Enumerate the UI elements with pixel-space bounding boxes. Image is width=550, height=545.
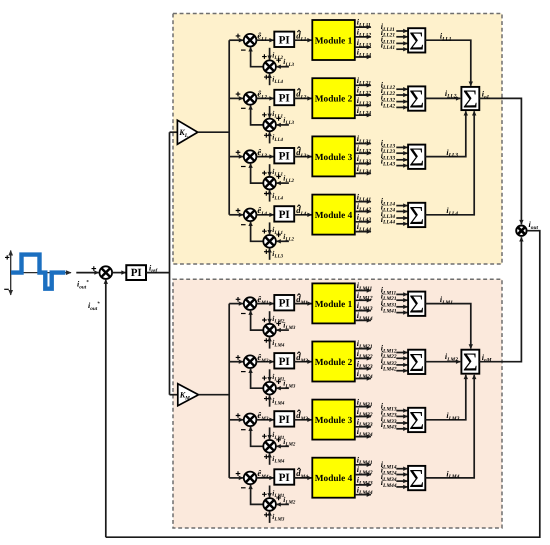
wire i_M3 SUM_M3 to big sigma bottom <box>425 375 466 420</box>
wire stub into S2_L4 bottom <box>269 248 271 259</box>
wire S0 to PI <box>112 272 125 274</box>
wire i_L1 SUM_L1 to big sigma top <box>425 40 471 85</box>
wire S2_L2 to S_L2 (negative feedback) <box>251 105 264 125</box>
label - at S_L3 <box>241 166 246 168</box>
svg-text:Σ: Σ <box>463 348 478 377</box>
label + top stub S2_L4 <box>262 229 267 234</box>
svg-text:PI: PI <box>279 34 290 46</box>
leg group dashed box (top, cream) <box>173 14 502 265</box>
summing junction S_M3 <box>244 414 257 427</box>
wire PI to Module 4 <box>294 214 311 216</box>
summing junction S2_L4 <box>263 235 276 248</box>
svg-text:PI: PI <box>279 356 290 368</box>
summing junction S_M2 <box>244 355 257 368</box>
label - at S_L2 <box>241 107 246 109</box>
wire K_L to top distribution line <box>198 131 230 133</box>
label + bottom stub S2_L4 <box>264 249 269 254</box>
wire branch to junction S_M3 <box>229 419 243 421</box>
PI controller PI_L3 <box>274 148 294 163</box>
wire S2_M1 to S_M1 (negative feedback) <box>251 311 264 331</box>
label + bottom stub S2_M2 <box>264 396 269 401</box>
wire i_ref vertical line <box>169 132 171 395</box>
PI controller PI_M1 <box>274 295 294 310</box>
label + at S_M4 <box>236 471 241 476</box>
wire K_M to bottom distribution line <box>199 394 230 396</box>
summing junction S_M1 <box>244 297 257 310</box>
wire stub into S2_L3 bottom <box>269 190 271 202</box>
summation inputs i_LM14..i_LM44 <box>381 460 408 489</box>
wire i_out feedback (right, bottom rail, up to S0) <box>106 231 540 538</box>
svg-text:PI: PI <box>279 209 290 221</box>
wire PI to i_ref node <box>146 272 170 274</box>
input summing junction S0 <box>100 266 113 279</box>
wire into gain K_M <box>170 394 178 396</box>
wire S_L2 to PI <box>256 97 273 99</box>
summation block SUM_L3 <box>408 143 425 172</box>
wire stub into S2_L4 right <box>277 240 289 242</box>
wire branch to junction S_L3 <box>229 156 243 158</box>
module block Module 2 (L) <box>312 78 355 118</box>
summation block SUM_L4 <box>408 201 425 230</box>
wire into gain K_L <box>170 131 178 133</box>
summation block SUM_L2 <box>408 85 425 114</box>
wire branch to junction S_L1 <box>229 39 243 41</box>
module 4 output arrows i_LL41..i_LL44 <box>355 192 372 233</box>
svg-text:Σ: Σ <box>409 201 424 230</box>
summation inputs i_LL12..i_LL42 <box>381 80 408 109</box>
wire branch to junction S_M4 <box>229 477 243 479</box>
wire stub into S2_M1 bottom <box>269 337 271 349</box>
wire S2_L4 to S_L4 (negative feedback) <box>251 222 264 242</box>
wire stub i_MM2 into S2_M1 top <box>269 311 271 323</box>
gain amplifier K_L <box>177 120 197 144</box>
label + bottom stub S2_M1 <box>264 338 269 343</box>
label + at S_L3 <box>236 150 241 155</box>
module 4 output arrows i_LM41..i_LM44 <box>355 455 373 496</box>
wire stub into S2_M3 bottom <box>269 453 271 465</box>
wire stub into S2_M1 right <box>277 329 289 331</box>
module block Module 1 (L) <box>312 20 355 60</box>
wire S_L4 to PI <box>256 214 273 216</box>
svg-text:Σ: Σ <box>409 406 424 435</box>
summing junction S_M4 <box>244 472 257 485</box>
label + at S_L2 <box>236 92 241 97</box>
wire L distribution line <box>228 40 230 215</box>
module block Module 3 (M) <box>312 400 355 440</box>
wire stub i_MM1 into S2_M4 top <box>269 486 271 498</box>
svg-text:PI: PI <box>279 151 290 163</box>
label + right stub S2_M4 <box>276 496 281 501</box>
wire PI to Module 1 <box>294 39 311 41</box>
svg-text:Σ: Σ <box>463 84 478 113</box>
wire S_L1 to PI <box>256 39 273 41</box>
wire stub into S2_L1 bottom <box>269 74 271 86</box>
wire feedback into S0 (from bottom rail) <box>105 280 107 538</box>
gain amplifier K_M <box>178 384 199 406</box>
PI controller PI0 <box>126 265 146 280</box>
label + top stub S2_L1 <box>262 54 267 59</box>
wire stub into S2_M2 bottom <box>269 395 271 407</box>
label + bottom stub S2_L2 <box>264 133 269 138</box>
summation inputs i_LM13..i_LM43 <box>381 402 408 431</box>
label + top stub S2_L2 <box>262 113 267 118</box>
label + right stub S2_M3 <box>276 438 281 443</box>
wire stub i_LL1 into S2_L2 top <box>269 106 271 118</box>
summation inputs i_LL13..i_LL43 <box>381 139 408 168</box>
label + at S_M2 <box>236 355 241 360</box>
module 2 output arrows i_LL21..i_LL24 <box>355 76 372 117</box>
wire branch to junction S_L2 <box>229 97 243 99</box>
label + top stub S2_M3 <box>262 434 267 439</box>
summing junction S_L3 <box>244 150 257 163</box>
summation inputs i_LL11..i_LL41 <box>381 22 408 51</box>
wire stub i_LL2 into S2_L1 top <box>269 48 271 60</box>
summation inputs i_LM11..i_LM41 <box>381 286 408 315</box>
label + at S_L1 <box>236 34 241 39</box>
wire i_oM big sigma M to output junction <box>479 237 521 361</box>
summation inputs i_LL14..i_LL44 <box>381 197 408 226</box>
wire stub into S2_L2 bottom <box>269 132 271 144</box>
svg-text:Module 2: Module 2 <box>315 358 353 368</box>
wire stub into S2_L2 right <box>277 124 289 126</box>
wire PI to Module 2 <box>294 97 311 99</box>
module group dashed box (bottom, peach) <box>173 279 502 528</box>
wire PI to Module 2 <box>294 361 311 363</box>
label + right stub S2_L4 <box>276 233 281 238</box>
wire S_M1 to PI <box>256 303 273 305</box>
module block Module 2 (M) <box>312 342 355 382</box>
wire i_L2 SUM_L2 to big sigma left <box>425 97 460 99</box>
PI controller PI_L2 <box>274 90 294 105</box>
wire branch to junction S_M1 <box>229 303 243 305</box>
summing junction S_L1 <box>244 34 257 47</box>
total summation block SUM_M <box>461 348 479 377</box>
wire PI to Module 3 <box>294 156 311 158</box>
label + right stub S2_L1 <box>276 58 281 63</box>
svg-text:Σ: Σ <box>409 26 424 55</box>
module block Module 3 (L) <box>312 136 355 176</box>
wire S_M2 to PI <box>256 361 273 363</box>
module 2 output arrows i_LM21..i_LM24 <box>355 339 373 380</box>
label + right stub S2_M1 <box>276 321 281 326</box>
summing junction S2_M2 <box>263 382 276 395</box>
wire i_M4 SUM_M4 to big sigma bottom <box>425 375 474 478</box>
wire PI to Module 1 <box>294 303 311 305</box>
label + right stub S2_M2 <box>276 379 281 384</box>
wire i_M1 SUM_M1 to big sigma top <box>425 304 471 349</box>
summation block SUM_M3 <box>408 406 425 435</box>
module block Module 4 (L) <box>312 195 355 235</box>
wire branch to junction S_L4 <box>229 214 243 216</box>
label + right stub S2_L3 <box>276 174 281 179</box>
summing junction S2_L3 <box>263 177 276 190</box>
reference waveform axes <box>4 251 71 295</box>
label + top stub S2_M1 <box>262 318 267 323</box>
total summation block SUM_L <box>461 84 479 113</box>
svg-text:Module 3: Module 3 <box>315 153 353 163</box>
wire i_oL big sigma L to output junction <box>479 98 521 224</box>
module 3 output arrows i_LM31..i_LM34 <box>355 397 373 438</box>
svg-text:Module 1: Module 1 <box>315 37 353 47</box>
label - at S_L1 <box>241 49 246 51</box>
wire stub into S2_M4 right <box>277 503 289 505</box>
wire stub into S2_M3 right <box>277 445 289 447</box>
PI controller PI_L4 <box>274 206 294 221</box>
summing junction S2_M3 <box>263 440 276 453</box>
label - at S_M3 <box>241 429 246 431</box>
wire S2_L3 to S_L3 (negative feedback) <box>251 164 264 184</box>
summing junction S2_M4 <box>263 498 276 511</box>
wire stub into S2_L1 right <box>277 66 289 68</box>
label + bottom stub S2_M4 <box>264 513 269 518</box>
svg-text:PI: PI <box>131 267 142 279</box>
wire M distribution line <box>228 304 230 478</box>
reference square waveform (blue) <box>11 255 65 289</box>
PI controller PI_L1 <box>274 32 294 47</box>
label + at S_M3 <box>236 413 241 418</box>
module block Module 1 (M) <box>312 283 355 323</box>
svg-text:Module 4: Module 4 <box>315 211 353 221</box>
summing junction S2_L2 <box>263 119 276 132</box>
wire stub i_LL1 into S2_L4 top <box>269 222 271 234</box>
svg-text:Σ: Σ <box>409 290 424 319</box>
wire S_M3 to PI <box>256 419 273 421</box>
label + bottom stub S2_L1 <box>264 75 269 80</box>
label - at S_M2 <box>241 371 246 373</box>
wire stub into S2_M4 bottom <box>269 511 271 523</box>
wire S_L3 to PI <box>256 156 273 158</box>
label - at S_M1 <box>241 313 246 315</box>
label - at S_M4 <box>241 487 246 489</box>
svg-text:PI: PI <box>279 414 290 426</box>
wire PI to Module 4 <box>294 477 311 479</box>
summing junction S2_L1 <box>263 60 276 73</box>
label + top stub S2_M4 <box>262 492 267 497</box>
wire stub i_MM1 into S2_M2 top <box>269 369 271 381</box>
svg-text:Σ: Σ <box>409 464 424 493</box>
label + at S_M1 <box>236 297 241 302</box>
svg-text:PI: PI <box>279 472 290 484</box>
wire S2_M3 to S_M3 (negative feedback) <box>251 427 264 447</box>
PI controller PI_M2 <box>274 353 294 368</box>
wire stub i_MM1 into S2_M3 top <box>269 427 271 439</box>
wire stub into S2_M2 right <box>277 387 289 389</box>
svg-text:PI: PI <box>279 93 290 105</box>
svg-text:Module 4: Module 4 <box>315 474 353 484</box>
wire S2_M2 to S_M2 (negative feedback) <box>251 369 264 389</box>
summation block SUM_M1 <box>408 290 425 319</box>
summation inputs i_LM12..i_LM42 <box>381 344 408 373</box>
summation block SUM_M2 <box>408 348 425 377</box>
output junction S_out <box>516 226 526 236</box>
module 3 output arrows i_LL31..i_LL34 <box>355 134 372 175</box>
summing junction S_L2 <box>244 92 257 105</box>
label + at S_L4 <box>236 208 241 213</box>
module 1 output arrows i_LM11..i_LM14 <box>355 281 373 322</box>
wire waveform to input junction <box>76 272 98 274</box>
wire i_M2 SUM_M2 to big sigma left <box>425 361 460 363</box>
summing junction S_L4 <box>244 209 257 222</box>
svg-text:Σ: Σ <box>409 85 424 114</box>
module block Module 4 (M) <box>312 458 355 498</box>
svg-text:Σ: Σ <box>409 143 424 172</box>
summation block SUM_L1 <box>408 26 425 55</box>
PI controller PI_M4 <box>274 469 294 484</box>
wire stub into S2_L3 right <box>277 182 289 184</box>
wire S2_L1 to S_L1 (negative feedback) <box>251 47 264 66</box>
wire i_L3 SUM_L3 to big sigma bottom <box>425 111 466 156</box>
PI controller PI_M3 <box>274 411 294 426</box>
wire i_L4 SUM_L4 to big sigma bottom <box>425 111 474 215</box>
label + top stub S2_L3 <box>262 171 267 176</box>
wire branch to junction S_M2 <box>229 361 243 363</box>
wire S2_M4 to S_M4 (negative feedback) <box>251 485 264 505</box>
svg-text:Module 2: Module 2 <box>315 95 353 105</box>
label + right stub S2_L2 <box>276 116 281 121</box>
label + bottom stub S2_L3 <box>264 191 269 196</box>
label + bottom stub S2_M3 <box>264 454 269 459</box>
svg-text:Module 1: Module 1 <box>315 300 353 310</box>
label - at S_L4 <box>241 224 246 226</box>
wire PI to Module 3 <box>294 419 311 421</box>
svg-text:Module 3: Module 3 <box>315 416 353 426</box>
module 1 output arrows i_LL11..i_LL14 <box>355 18 372 59</box>
svg-text:Σ: Σ <box>409 348 424 377</box>
svg-text:PI: PI <box>279 298 290 310</box>
wire stub i_LL1 into S2_L3 top <box>269 164 271 176</box>
label + at input junction <box>92 266 97 271</box>
wire S_M4 to PI <box>256 477 273 479</box>
summing junction S2_M1 <box>263 324 276 337</box>
label + top stub S2_M2 <box>262 376 267 381</box>
summation block SUM_M4 <box>408 464 425 493</box>
